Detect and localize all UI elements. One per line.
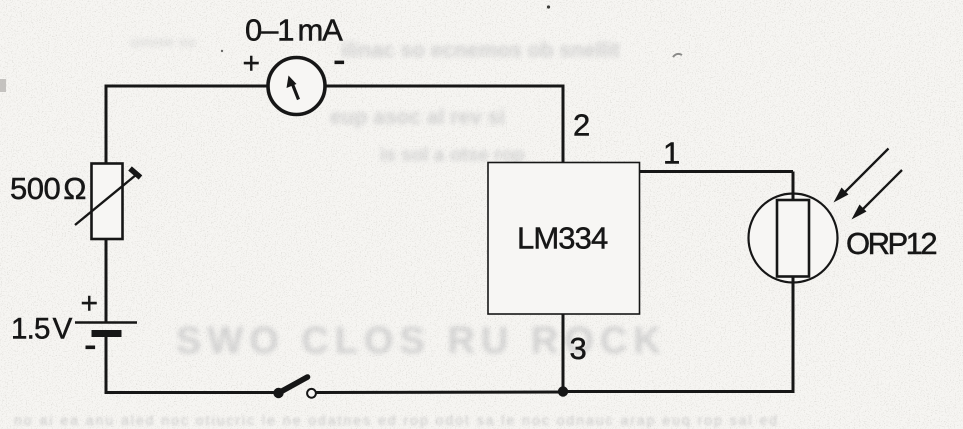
wire: resistor bottom to battery + plate [105,238,108,322]
label 500 ohm [10,171,86,206]
svg-text:LM334: LM334 [517,221,608,256]
op-amp U1 LM334 box [488,163,640,315]
svg-text:1: 1 [663,136,680,171]
svg-text:1.5V: 1.5V [11,313,73,346]
battery + polarity [81,287,99,320]
label 0-1mA [245,13,343,48]
battery B1 1.5V [75,323,137,338]
ammeter M1 0-1mA [268,58,325,115]
battery - polarity [86,346,96,350]
resistor R1 500 ohm (preset) [75,164,141,240]
faint scan bleed-through rows (decorative) [341,39,691,62]
svg-text:3: 3 [570,331,587,366]
pin 2 label [573,108,590,143]
wire: pin 2 vertical from top rail into LM334 [562,86,565,163]
stray scan mark (decorative) [673,54,682,57]
wire: left vertical from top corner to resistor top [105,85,108,165]
pin 3 label [570,331,587,366]
wire: pin 3 vertical from LM334 to bottom rail [562,314,565,392]
wire: battery - plate down to bottom rail [105,337,108,394]
wire: bottom rail from node 3 to ORP12 leg [564,390,795,393]
ammeter - polarity [335,61,345,65]
label 1.5V [11,313,73,346]
wire: ORP12 right vertical leg [792,172,795,392]
svg-text:+: + [81,287,99,320]
svg-text:500Ω: 500Ω [10,171,86,206]
node 3 junction dot [558,386,568,396]
svg-text:2: 2 [573,108,590,143]
svg-text:+: + [243,47,261,80]
svg-text:0–1mA: 0–1mA [245,13,343,48]
wire: top-left corner horizontal, battery+ to ammeter to node 2 [106,85,565,88]
svg-text:ORP12: ORP12 [846,226,936,261]
wire: bottom rail from battery to switch pivot [105,391,276,394]
pin 1 label [663,136,680,171]
label ORP12 [846,226,936,261]
ammeter + polarity [243,47,261,80]
light arrow 1 [834,149,889,203]
wire: pin 1 horizontal from LM334 to ORP12 corner [639,170,793,173]
light arrow 2 [852,170,903,220]
switch S1 (open) [273,377,316,398]
wire: bottom rail from switch to node 3 junction [317,391,565,395]
photoresistor LDR ORP12 [749,194,838,284]
